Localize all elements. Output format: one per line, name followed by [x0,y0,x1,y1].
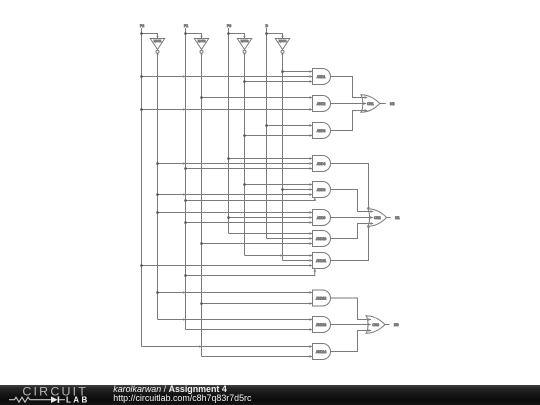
wire AND3 input 1 from D bus [267,125,313,127]
junction on input bus at NOT4 branch [265,32,268,35]
diode symbol in logo [51,396,59,403]
junction wire AND2 input 2 from P2 bus [140,108,143,111]
wire NOT1 input branch [142,34,158,39]
wire NOT4 input branch [267,34,283,39]
wire AND8 output to OR2 [331,190,374,212]
NOT3 output pin arrow [243,54,245,56]
wire AND14 output to OR3 [331,331,372,352]
AND gate AND8 [313,182,331,198]
svg-text:AND9: AND9 [317,216,326,220]
wire NOT3 input branch [229,34,245,39]
wire AND2 input 1 from NOT2 bus [202,97,313,99]
wire AND11 input 3 from P2 bus [142,265,313,267]
wire AND4 input 1 from P0 bus [229,158,313,160]
junction wire AND8 input 1 from NOT3 bus [243,183,246,186]
wire AND11 output to OR2 bottom [331,225,369,260]
NOT1 output pin arrow [156,54,158,56]
wire P0 vertical bus [228,28,230,234]
wire AND8 input 3 from NOT1 bus [158,194,313,196]
svg-text:P2: P2 [140,24,144,28]
wire NOT2 output vertical bus [201,53,203,356]
wire AND11 input 2 from NOT4 bus corner [283,260,313,262]
svg-text:AND11: AND11 [316,259,326,263]
svg-text:NOT3: NOT3 [241,39,249,43]
wire AND9 input 2 from P0 bus [229,217,313,219]
wire AND8 input 4 from P1 bus (bottom entry) [186,198,315,201]
junction wire AND8 input 4 at P1 [184,199,187,202]
wire AND4 output to OR2 top [331,164,369,210]
AND gate AND1 [313,69,331,85]
junction wire AND3 input 2 from NOT3 bus [243,134,246,137]
wire AND13 input 2 from P1 bus corner [186,329,313,331]
wire AND11 input 4 from P1 bus (bottom entry) [186,269,315,276]
wire AND13 output to OR3 [331,324,371,326]
junction wire AND8 input 2 from NOT4 bus [281,188,284,191]
wire AND1 input 1 from NOT4 bus [283,71,313,73]
wire AND10 input 3 from NOT2 bus [202,243,313,245]
junction wire AND4 input 1 from P0 bus [227,157,230,160]
svg-text:AND4: AND4 [317,162,326,166]
junction on input bus at NOT2 branch [184,32,187,35]
junction wire AND2 input 1 from NOT2 bus [200,96,203,99]
wire AND9 input 1 from NOT1 bus [158,212,313,214]
svg-text:N0: N0 [394,323,399,327]
svg-text:D: D [265,24,268,28]
wire AND14 input 1 from P2 bus corner [142,346,313,348]
wire AND10 input 2 from D bus corner [267,238,313,240]
junction wire AND9 input 2 from P0 bus [227,216,230,219]
OR gate OR1 [361,95,380,113]
inverter NOT3 [237,39,251,50]
svg-text:AND2: AND2 [317,102,326,106]
svg-text:AND1: AND1 [317,75,326,79]
AND gate AND13 [313,317,331,333]
junction wire AND12 input 1 from NOT1 bus [156,291,159,294]
svg-text:LAB: LAB [66,396,90,405]
svg-text:N2: N2 [390,102,395,106]
svg-text:N1: N1 [395,216,400,220]
wire AND4 input 3 from P1 bus [186,168,313,170]
svg-text:OR3: OR3 [372,323,379,327]
junction wire AND1 input 2 from P2 bus [140,75,143,78]
AND gate AND12 [313,290,331,306]
junction on input bus at NOT3 branch [227,32,230,35]
junction wire AND3 input 1 from D bus [265,124,268,127]
wire P2 vertical bus [141,28,143,347]
svg-text:OR1: OR1 [367,102,374,106]
svg-text:AND3: AND3 [317,129,326,133]
NOT2 output pin arrow [200,54,202,56]
wire AND1 input 3 from NOT3 bus [245,81,313,83]
inverter NOT1 [150,39,164,50]
junction wire AND11 input 4 at P1 [184,274,187,277]
CircuitLab logo [0,384,110,405]
wire AND3 output to OR1 [331,111,368,131]
svg-text:NOT1: NOT1 [154,39,162,43]
AND gate AND2 [313,96,331,112]
wire AND1 input 2 from P2 bus [142,76,313,78]
wire AND8 input 2 from NOT4 bus [283,189,313,191]
wire AND11 input 1 from NOT3 bus corner [245,255,313,257]
junction wire AND9 input 1 from NOT1 bus [156,211,159,214]
junction on input bus at NOT1 branch [140,32,143,35]
AND gate AND9 [313,210,331,226]
inverter NOT2 [194,39,208,50]
junction wire AND4 input 2 from NOT1 bus [156,162,159,165]
wire AND9 output to OR2 [331,217,373,219]
AND gate AND10 [313,231,331,247]
wire P1 vertical bus [185,28,187,330]
junction wire AND4 input 3 from P1 bus [184,167,187,170]
junction wire AND12 input 2 from NOT2 bus [200,302,203,305]
wire AND3 input 2 from NOT3 bus [245,135,313,137]
wire AND14 input 2 from NOT2 bus corner [202,356,313,358]
junction wire AND1 input 1 from NOT4 bus [281,70,284,73]
wire OR3 output [385,324,390,326]
wire OR1 output [380,103,386,105]
wire AND4 input 2 from NOT1 bus [158,163,313,165]
wire AND10 output to OR2 [331,224,374,239]
svg-text:NOT4: NOT4 [279,39,287,43]
wire AND8 input 1 from NOT3 bus [245,184,313,186]
junction wire AND1 input 3 from NOT3 bus [243,80,246,83]
wire AND9 input 3 from P1 bus [186,222,313,224]
AND gate AND3 [313,123,331,139]
OR gate OR3 [366,316,385,334]
wire NOT1 output vertical bus [157,53,159,319]
wire OR2 output [387,217,391,219]
junction wire AND8 input 3 from NOT1 bus [156,193,159,196]
svg-text:AND12: AND12 [316,296,326,300]
svg-text:OR2: OR2 [374,216,381,220]
wire AND2 input 2 from P2 bus [142,109,313,111]
svg-text:P0: P0 [227,24,231,28]
svg-text:NOT2: NOT2 [198,39,206,43]
wire NOT3 output vertical bus [244,53,246,255]
svg-text:AND13: AND13 [316,323,326,327]
resistor symbol in logo [9,397,51,402]
svg-text:AND14: AND14 [316,350,326,354]
wire D vertical bus [266,28,268,239]
svg-text:AND10: AND10 [316,237,326,241]
wire NOT4 output vertical bus [282,53,284,260]
NOT4 output pin arrow [281,54,283,56]
wire AND13 input 1 from NOT1 bus corner [158,319,313,321]
wire AND12 input 1 from NOT1 bus [158,292,313,294]
wire NOT2 input branch [186,34,202,39]
junction wire AND10 input 3 from NOT2 bus [200,242,203,245]
inverter NOT4 [275,39,289,50]
OR gate OR2 [368,209,387,227]
svg-text:P1: P1 [184,24,188,28]
AND gate AND11 [313,253,331,269]
junction wire AND11 input 3 from P2 bus [140,264,143,267]
junction wire AND9 input 3 from P1 bus [184,221,187,224]
wire AND1 output to OR1 [331,77,368,98]
AND gate AND14 [313,344,331,360]
AND gate AND4 [313,156,331,172]
wire AND12 output to OR3 [331,298,372,320]
footer brand bar [0,385,540,405]
wire AND10 input 1 from P0 bus corner [229,233,313,235]
svg-text:AND8: AND8 [317,188,326,192]
wire AND2 output to OR1 [331,103,367,105]
wire AND12 input 2 from NOT2 bus [202,303,313,305]
